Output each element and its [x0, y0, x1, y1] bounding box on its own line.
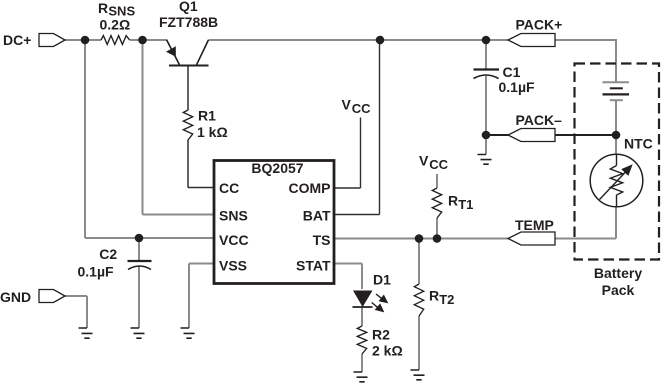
svg-text:R1: R1 — [198, 108, 216, 124]
svg-text:T1: T1 — [458, 197, 473, 212]
svg-text:FZT788B: FZT788B — [159, 14, 218, 30]
svg-text:TS: TS — [313, 232, 331, 248]
svg-text:V: V — [342, 97, 352, 113]
svg-text:Q1: Q1 — [179, 0, 198, 14]
svg-text:Pack: Pack — [602, 282, 635, 298]
svg-text:C1: C1 — [503, 64, 521, 80]
svg-text:R: R — [448, 193, 458, 209]
svg-text:0.1µF: 0.1µF — [78, 264, 115, 280]
svg-text:D1: D1 — [373, 272, 391, 288]
svg-text:CC: CC — [219, 180, 239, 196]
svg-text:T2: T2 — [439, 292, 454, 307]
svg-text:2 kΩ: 2 kΩ — [372, 343, 403, 359]
svg-text:SNS: SNS — [219, 207, 248, 223]
svg-text:0.2Ω: 0.2Ω — [100, 16, 131, 32]
svg-text:NTC: NTC — [624, 136, 653, 152]
svg-text:BQ2057: BQ2057 — [251, 160, 303, 176]
svg-text:CC: CC — [352, 101, 371, 116]
svg-text:R2: R2 — [372, 327, 390, 343]
svg-text:CC: CC — [429, 157, 448, 172]
svg-text:PACK–: PACK– — [516, 112, 563, 128]
svg-text:C2: C2 — [99, 246, 117, 262]
svg-text:1 kΩ: 1 kΩ — [197, 124, 228, 140]
svg-text:VCC: VCC — [219, 232, 249, 248]
svg-text:V: V — [419, 153, 429, 169]
svg-text:R: R — [98, 0, 108, 16]
svg-text:STAT: STAT — [296, 257, 331, 273]
svg-text:R: R — [429, 288, 439, 304]
svg-text:Battery: Battery — [594, 265, 642, 281]
svg-text:0.1µF: 0.1µF — [499, 79, 536, 95]
svg-text:DC+: DC+ — [3, 32, 31, 48]
svg-text:VSS: VSS — [219, 257, 247, 273]
svg-text:BAT: BAT — [303, 207, 331, 223]
svg-text:TEMP: TEMP — [515, 217, 554, 233]
svg-text:PACK+: PACK+ — [516, 17, 563, 33]
svg-text:COMP: COMP — [289, 180, 331, 196]
svg-text:GND: GND — [0, 289, 31, 305]
